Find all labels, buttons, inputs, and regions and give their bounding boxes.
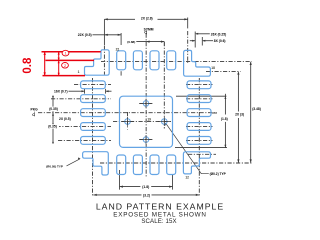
wire left row1 centerline [74, 84, 111, 86]
svg-text:2X (2.8): 2X (2.8) [141, 16, 153, 20]
wire left via vertical centerline [127, 112, 129, 130]
dimension (1.8) right center pad height [224, 94, 226, 115]
pad left column 4 [81, 123, 106, 131]
pad bottom row 2 [133, 155, 142, 175]
svg-text:2X (3): 2X (3) [235, 113, 244, 117]
pad left column 3 [81, 109, 106, 117]
wire right row4 centerline [186, 126, 213, 128]
wire right row5 centerline [186, 139, 213, 141]
wire extension tick 8X label [201, 37, 203, 46]
pad corner top-left pin 1 staircase [85, 50, 110, 75]
pad corner top-right staircase [184, 50, 211, 76]
svg-text:(3.2): (3.2) [143, 193, 150, 197]
wire right row6 centerline [188, 153, 216, 155]
svg-text:26X (0.25): 26X (0.25) [211, 32, 226, 36]
via bottom [143, 137, 149, 143]
pad right column 2 [187, 95, 211, 103]
red highlight line middle (pad 1 step edge) [46, 59, 95, 61]
svg-text:1: 1 [78, 70, 80, 74]
pad top row 1 [117, 51, 126, 70]
wire bottom via horizontal crosshair [139, 139, 153, 141]
svg-text:19: 19 [147, 117, 151, 121]
dimension (3.2) bottom [93, 194, 141, 196]
pad top row 3 [150, 51, 159, 70]
svg-text:(R0.05) TYP: (R0.05) TYP [46, 164, 63, 168]
pad right column 5 [187, 137, 211, 145]
dimension 2X (0.5) left stack [52, 111, 54, 123]
wire bottom pad row centerline [100, 162, 252, 164]
pad top row 2 [133, 51, 142, 70]
svg-text:22: 22 [116, 48, 120, 52]
wire left pad column centerline [92, 78, 94, 196]
wire tick below pad 22 [120, 71, 122, 75]
wire 16X dim tick right [105, 89, 107, 94]
svg-text:12: 12 [185, 175, 189, 179]
dimension (Ø0.2) TYP via leader [166, 123, 209, 174]
wire left row4 centerline [48, 126, 111, 128]
thermal pad center [120, 96, 173, 147]
svg-text:(Ø0.2) TYP: (Ø0.2) TYP [210, 172, 227, 176]
pad corner bottom-left staircase [83, 152, 109, 175]
wire extension line 2X(2.8) left [103, 19, 105, 45]
wire top via horizontal crosshair [139, 102, 153, 104]
wire left row5 centerline [58, 139, 111, 141]
dimension 2X (3) right [237, 73, 239, 112]
wire extension tick 26X label [194, 32, 196, 48]
svg-text:0.8: 0.8 [22, 57, 34, 74]
svg-text:SCALE: 15X: SCALE: 15X [141, 218, 176, 225]
wire top pad row centerline [101, 60, 252, 62]
wire (1.8) extension right [172, 174, 174, 190]
red callout circle 2 [62, 63, 69, 69]
pad corner bottom-right staircase [183, 152, 210, 174]
pad right column 3 [187, 109, 211, 117]
wire via column centerline [163, 42, 165, 129]
svg-text:1: 1 [64, 52, 66, 56]
svg-text:(0.35): (0.35) [48, 124, 57, 128]
svg-text:22X (0.5): 22X (0.5) [78, 33, 92, 37]
svg-text:(3.48): (3.48) [252, 107, 261, 111]
pad right column 4 [187, 123, 211, 131]
pad bottom row 4 [167, 155, 176, 175]
svg-text:2X (0.5): 2X (0.5) [59, 117, 71, 121]
via right [162, 119, 168, 125]
svg-text:LAND PATTERN EXAMPLE: LAND PATTERN EXAMPLE [96, 202, 224, 212]
svg-text:(1.8): (1.8) [221, 117, 228, 121]
svg-text:PKG: PKG [31, 107, 39, 111]
wire 16X dim tick left [84, 89, 86, 94]
pad bottom row 3 [150, 155, 159, 175]
pad left column 5 [81, 137, 106, 145]
dimension (0.35) lower left stack [46, 124, 59, 128]
dimension (0.35) upper left stack [52, 97, 54, 107]
dimension (1.8) bottom [120, 186, 141, 188]
pad bottom row 1 [117, 155, 126, 175]
wire center pad bottom edge extension [175, 147, 227, 149]
svg-text:8X (0.6): 8X (0.6) [214, 39, 226, 43]
wire extension line 2X(2.8) right [187, 18, 189, 29]
red callout circle 1 [62, 50, 69, 56]
via left [125, 119, 131, 125]
pad left column 2 [81, 95, 106, 103]
red dimension 0.8 overall [44, 52, 46, 76]
wire vertical symmetry centerline SYMM [145, 34, 147, 179]
svg-text:(0.35): (0.35) [49, 107, 58, 111]
svg-text:(0.88): (0.88) [127, 40, 135, 44]
wire PKG horizontal centerline [38, 112, 217, 114]
via top [143, 101, 149, 107]
wire (1.8) extension left [119, 170, 121, 190]
pad right column 1 [187, 81, 211, 89]
pad top row 4 [167, 51, 176, 70]
red sub-dimension arrows [58, 52, 60, 76]
pad left column 1 [81, 81, 106, 89]
wire right pad column centerline [198, 78, 200, 196]
svg-text:(1.8): (1.8) [142, 185, 149, 189]
dimension (3.48) right [250, 62, 252, 163]
wire PKG centerline right stub [212, 112, 217, 114]
red highlight line top (pad 1 top edge) [42, 51, 101, 53]
wire center pad top edge extension [176, 95, 226, 97]
wire tick above pad 22 [120, 33, 122, 45]
wire right row2 centerline [186, 98, 213, 100]
svg-text:16X (0.7): 16X (0.7) [54, 89, 68, 93]
svg-text:18: 18 [211, 66, 215, 70]
wire via row centerline [113, 121, 171, 123]
wire left row2 centerline [51, 98, 111, 100]
dimension 2X (2.8) top [104, 18, 135, 20]
wire corner pad row centerline right [206, 70, 241, 72]
wire right row1 centerline [186, 84, 213, 86]
red highlight line bottom (pad 1 bottom edge) [43, 75, 86, 77]
svg-text:2: 2 [64, 64, 66, 68]
